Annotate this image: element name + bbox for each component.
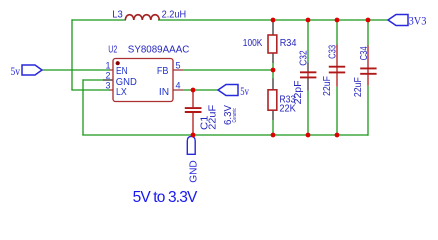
capacitor C1 plates — [185, 108, 202, 112]
svg-text:5v: 5v — [240, 86, 249, 98]
svg-text:LX: LX — [116, 87, 127, 98]
svg-text:22uF: 22uF — [353, 77, 364, 97]
value SY8089AAAC — [128, 45, 190, 56]
label R33 — [279, 94, 295, 105]
svg-text:Ceramic: Ceramic — [232, 108, 238, 123]
label R34 — [280, 38, 297, 49]
svg-text:SY8089AAAC: SY8089AAAC — [128, 45, 190, 56]
pin number 4 — [176, 81, 181, 91]
junction node C1 at IN — [191, 88, 196, 93]
wire GND vertical down — [82, 79, 84, 135]
svg-text:L3: L3 — [112, 10, 123, 21]
port 3V3 (output) — [388, 15, 408, 26]
capacitor C1 leads — [192, 90, 194, 135]
ground terminal GND — [187, 136, 195, 154]
wire IN pin 4 to 5v port — [173, 89, 218, 91]
svg-text:2.2uH: 2.2uH — [162, 10, 187, 21]
value 100K — [243, 38, 263, 49]
label C34 (rotated) — [359, 46, 370, 60]
value 6.3V (C1, rotated) — [223, 105, 234, 125]
svg-text:5v: 5v — [11, 66, 21, 78]
op-amp U2 chip body SY8089AAAC — [113, 59, 173, 102]
value 22K — [279, 103, 296, 114]
svg-text:IN: IN — [159, 87, 169, 98]
junction node top at C34 — [366, 18, 371, 23]
capacitor C34 plates — [360, 68, 376, 73]
pin stub GND pin 2 — [103, 79, 113, 81]
ground label GND (rotated) — [188, 160, 200, 183]
svg-text:3V3: 3V3 — [409, 16, 427, 28]
value 22uF (C33, rotated) — [322, 76, 333, 96]
junction node bottom at GND — [191, 133, 196, 138]
port label 5v (right) — [240, 86, 249, 98]
value Ceramic (C1, rotated) — [232, 108, 238, 123]
svg-text:U2: U2 — [108, 45, 117, 56]
svg-text:100K: 100K — [243, 38, 263, 49]
wire GND pin 2 horizontal — [83, 79, 103, 81]
junction node bottom at C33 — [335, 133, 340, 138]
pin name FB — [157, 66, 169, 77]
pin number 3 — [105, 81, 110, 91]
port label 3V3 — [409, 16, 427, 28]
pin number 1 — [105, 61, 110, 71]
pin number 5 — [176, 61, 181, 71]
svg-text:5: 5 — [176, 61, 181, 71]
svg-text:C32: C32 — [298, 50, 309, 66]
junction node bottom at C32 — [306, 133, 311, 138]
svg-text:22uF: 22uF — [208, 105, 219, 130]
port label 5v (left) — [11, 66, 21, 78]
label L3 — [112, 10, 123, 21]
inductor L3 — [125, 15, 159, 20]
svg-text:R34: R34 — [280, 38, 297, 49]
junction node top at R34 — [271, 18, 276, 23]
svg-text:GND: GND — [188, 160, 200, 183]
wire top rail left of inductor — [72, 19, 126, 21]
svg-text:3: 3 — [105, 81, 110, 91]
value 2.2uH — [162, 10, 187, 21]
capacitor C32 plates — [300, 72, 316, 77]
svg-text:FB: FB — [157, 66, 169, 77]
pin name LX — [116, 87, 127, 98]
wire bottom ground rail — [82, 134, 368, 136]
pin name GND — [116, 77, 137, 88]
junction node top at C32 — [306, 18, 311, 23]
value 22uF (C34, rotated) — [353, 77, 364, 97]
label C32 (rotated) — [298, 50, 309, 66]
wire LX horizontal to pin 3 — [71, 89, 113, 91]
junction node top at C33 — [335, 18, 340, 23]
resistor R33 body — [268, 90, 277, 110]
capacitor C33 plates — [329, 67, 345, 73]
port 5v (left input) — [22, 65, 42, 75]
resistor R34 pins — [272, 21, 274, 70]
port 5v (right, at IN) — [218, 85, 238, 96]
wire left vertical from top rail down to LX level — [71, 19, 73, 90]
capacitor C34 wire/pins — [367, 20, 369, 136]
label U2 — [108, 45, 117, 56]
wire FB pin 5 to divider node — [173, 69, 273, 71]
svg-text:C33: C33 — [328, 45, 339, 59]
junction node FB divider — [271, 68, 276, 73]
chip pin-1 marker dot — [116, 61, 120, 65]
capacitor C32 wire/pins — [307, 20, 309, 135]
value 22pF (rotated) — [293, 80, 304, 104]
svg-text:5V to 3.3V: 5V to 3.3V — [133, 189, 198, 206]
svg-text:C34: C34 — [359, 46, 370, 60]
pin name IN — [159, 87, 169, 98]
svg-text:4: 4 — [176, 81, 181, 91]
svg-text:22pF: 22pF — [293, 80, 304, 104]
svg-text:GND: GND — [116, 77, 137, 88]
svg-text:22uF: 22uF — [322, 76, 333, 96]
resistor R34 body — [268, 35, 277, 53]
capacitor C33 wire/pins — [336, 20, 338, 135]
label C33 (rotated) — [328, 45, 339, 59]
pin name EN — [116, 66, 128, 77]
wire from 5v port to EN pin 1 — [42, 69, 113, 71]
svg-text:EN: EN — [116, 66, 128, 77]
title 5V to 3.3V — [133, 189, 198, 206]
pin number 2 — [105, 71, 110, 81]
label C1 (rotated) — [199, 115, 210, 130]
value 22uF (C1, rotated) — [208, 105, 219, 130]
svg-text:1: 1 — [105, 61, 110, 71]
wire top rail right of inductor to 3V3 port — [158, 19, 388, 21]
junction node bottom at R33 — [271, 133, 276, 138]
svg-text:2: 2 — [105, 71, 110, 81]
resistor R33 pins — [272, 70, 274, 135]
